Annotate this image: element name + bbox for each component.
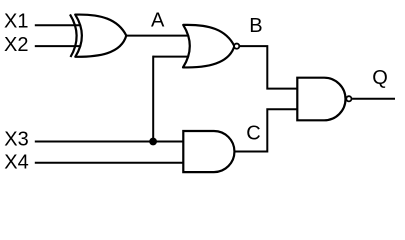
input label X2 bbox=[4, 34, 28, 56]
wire NOR U2 bottom input horizontal bbox=[153, 56, 193, 58]
svg-text:Q: Q bbox=[372, 67, 388, 89]
node label B bbox=[249, 15, 262, 37]
wire vertical from junction up to NOR U2 bottom input bbox=[152, 56, 154, 142]
input label X1 bbox=[4, 11, 28, 33]
svg-text:C: C bbox=[246, 122, 260, 144]
svg-text:X3: X3 bbox=[4, 129, 28, 151]
nand gate U4 inversion bubble bbox=[346, 96, 351, 101]
and gate U3 bbox=[183, 131, 234, 172]
junction dot on X3 net bbox=[149, 138, 157, 146]
input label X3 bbox=[4, 129, 28, 151]
nor gate U2 body bbox=[183, 25, 234, 68]
wire X2 input to XOR U1 bbox=[35, 45, 81, 47]
wire node Q : NAND U4 output bbox=[352, 98, 395, 100]
nor gate U2 inversion bubble bbox=[234, 44, 239, 49]
svg-text:X2: X2 bbox=[4, 34, 28, 56]
wire node A : XOR U1 output to NOR U2 top input bbox=[125, 35, 192, 37]
input label X4 bbox=[4, 152, 28, 174]
xor gate U1 bbox=[70, 14, 126, 57]
wire node B : NOR U2 output to NAND U4 top input bbox=[240, 46, 299, 88]
svg-text:A: A bbox=[151, 10, 165, 32]
svg-text:X4: X4 bbox=[4, 152, 28, 174]
wire X4 input to AND U3 bbox=[35, 162, 185, 164]
node label Q bbox=[372, 67, 388, 89]
wire X3 input to AND U3 bbox=[35, 141, 185, 143]
wire node C : AND U3 output to NAND U4 bottom input bbox=[234, 109, 299, 151]
wire X1 input to XOR U1 bbox=[35, 24, 81, 26]
node label C bbox=[246, 122, 260, 144]
node label A bbox=[151, 10, 165, 32]
svg-text:X1: X1 bbox=[4, 11, 28, 33]
svg-text:B: B bbox=[249, 15, 262, 37]
nand gate U4 body bbox=[297, 78, 345, 121]
